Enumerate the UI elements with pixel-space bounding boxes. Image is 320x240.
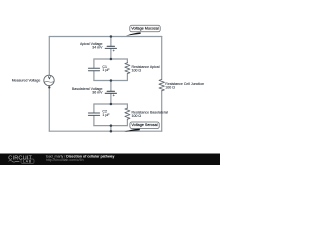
battery V1 plus sign xyxy=(113,50,115,52)
wire block2 bottom rail xyxy=(94,125,128,127)
junction node block1 top xyxy=(110,58,113,61)
voltmeter M1 circle xyxy=(44,75,54,85)
capacitor C1 plates xyxy=(88,68,99,71)
wire block1 bottom rail xyxy=(94,80,128,82)
resistor R-cell-junction zigzag xyxy=(159,79,164,90)
wire block2 top rail xyxy=(94,103,128,105)
wire right upper xyxy=(161,37,163,80)
callout Voltage Serosal tail xyxy=(124,128,139,131)
wire C1 branch top xyxy=(93,59,95,68)
wire block1 top rail xyxy=(94,58,128,60)
wire block1 to battery V2 xyxy=(110,81,112,92)
wire left lower xyxy=(48,86,50,132)
voltmeter M1 needle squiggle xyxy=(44,81,53,84)
battery V1 apical long plate xyxy=(105,47,116,49)
svg-text:Measured Voltage: Measured Voltage xyxy=(12,78,41,82)
battery V1 apical short plate xyxy=(107,45,114,47)
wire middle column top xyxy=(110,37,112,47)
svg-text:1 µF: 1 µF xyxy=(102,113,110,117)
svg-text:LAB: LAB xyxy=(23,160,32,164)
footer bar xyxy=(0,154,220,166)
wire block2 to bottom xyxy=(110,126,112,132)
wire C2 branch top xyxy=(93,104,95,113)
battery V2 basolateral short plate xyxy=(107,90,114,92)
wire battery V2 to block2 xyxy=(110,94,112,105)
wire right lower xyxy=(161,91,163,131)
resistor R-apical zigzag xyxy=(125,63,130,74)
battery V2 plus sign xyxy=(113,95,115,97)
wire left upper xyxy=(48,37,50,76)
callout Voltage Mucosal box xyxy=(130,25,160,32)
callout Voltage Serosal box xyxy=(130,122,159,129)
junction node block2 bottom xyxy=(110,124,113,127)
wire C1 branch bottom xyxy=(93,71,95,81)
svg-text:http://circuitlab.com/c/5h: http://circuitlab.com/c/5h xyxy=(46,158,84,162)
voltmeter terminal dot xyxy=(48,86,50,88)
svg-text:1 µF: 1 µF xyxy=(102,68,110,72)
wire top xyxy=(49,36,161,38)
svg-text:100 Ω: 100 Ω xyxy=(132,114,142,118)
wire R-baso branch bottom xyxy=(126,119,128,125)
junction node block1 bottom xyxy=(110,79,113,82)
wire R-apical branch bottom xyxy=(126,74,128,81)
battery V2 basolateral long plate xyxy=(105,92,116,94)
junction node block2 top xyxy=(110,103,113,106)
wire C2 branch bottom xyxy=(93,116,95,126)
svg-text:100 Ω: 100 Ω xyxy=(132,69,142,73)
wire R-baso branch top xyxy=(126,104,128,108)
svg-text:36 mV: 36 mV xyxy=(92,91,103,95)
svg-text:Voltage Serosal: Voltage Serosal xyxy=(131,123,157,127)
capacitor C2 plates xyxy=(88,113,99,115)
wire R-apical branch top xyxy=(126,59,128,63)
resistor R-basolateral zigzag xyxy=(125,108,130,119)
wire bottom xyxy=(49,130,161,132)
junction node bottom xyxy=(110,130,113,133)
footer logo LAB badge xyxy=(21,159,34,163)
svg-text:Voltage Mucosal: Voltage Mucosal xyxy=(131,26,159,30)
svg-text:100 Ω: 100 Ω xyxy=(165,86,175,90)
voltmeter M1 letter V xyxy=(48,77,50,79)
svg-text:34 mV: 34 mV xyxy=(92,45,103,49)
junction node top xyxy=(110,35,113,38)
footer logo waveform xyxy=(9,161,20,163)
callout Voltage Mucosal tail xyxy=(126,32,141,35)
wire battery V1 to block1 xyxy=(110,49,112,59)
